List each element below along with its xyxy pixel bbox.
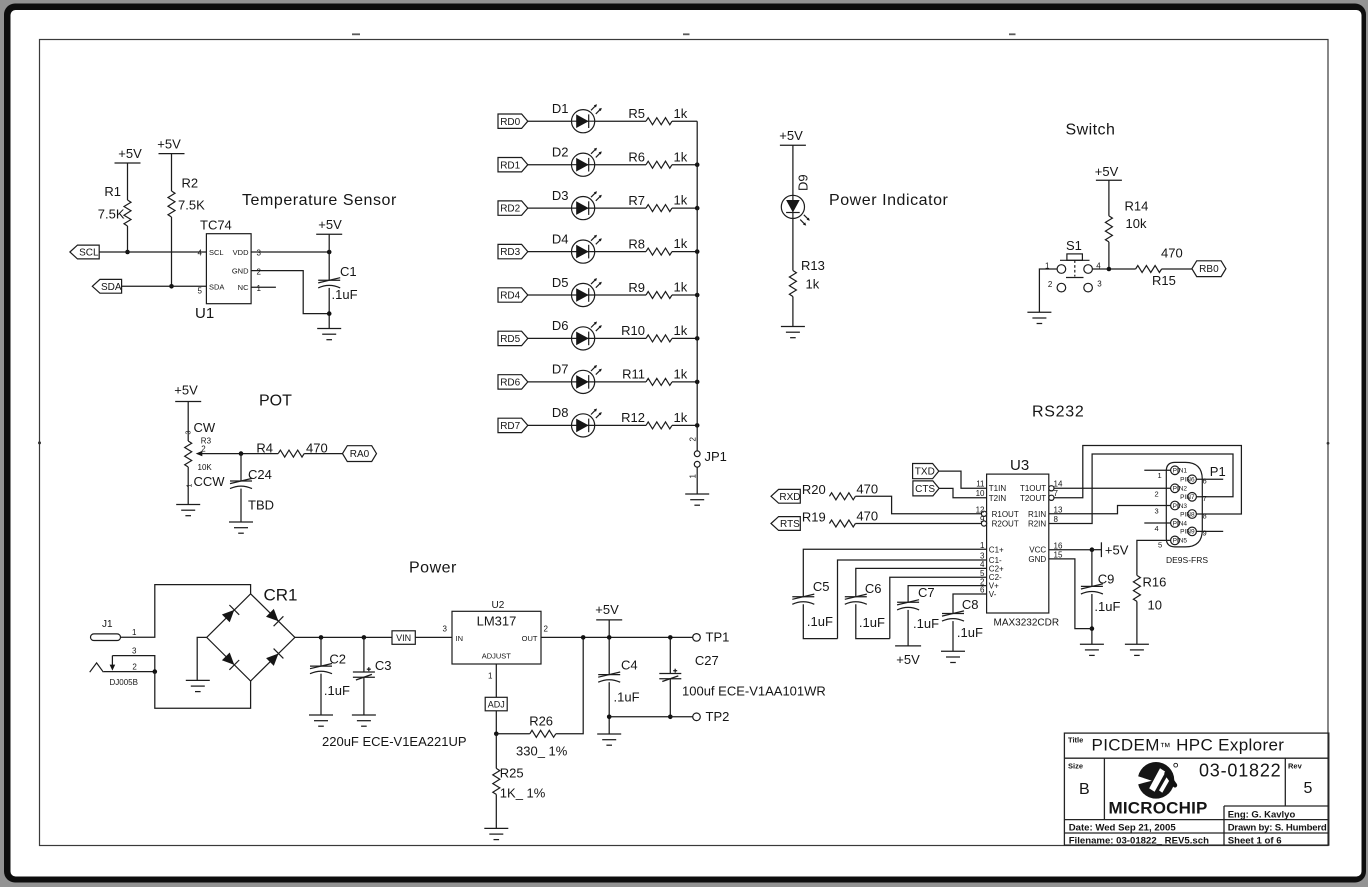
svg-text:470: 470 (856, 482, 878, 497)
svg-text:R2IN: R2IN (1028, 520, 1046, 529)
wire CTS to T2IN (939, 488, 987, 497)
wire RD0 to D1 (528, 120, 572, 122)
svg-text:2: 2 (1155, 490, 1159, 499)
junction bus row 2 (695, 162, 700, 167)
connector pin PIN6 (1180, 475, 1196, 484)
svg-text:R19: R19 (802, 510, 826, 525)
svg-text:SCL: SCL (209, 248, 224, 257)
led D4 (572, 235, 602, 264)
svg-text:8: 8 (1203, 512, 1207, 521)
svg-text:RD4: RD4 (500, 291, 520, 302)
wire R11 to bus (672, 381, 697, 383)
flag RD7 (498, 418, 528, 432)
svg-text:TXD: TXD (915, 467, 935, 478)
power +5V (C4) (596, 619, 622, 621)
svg-text:RTS: RTS (780, 519, 800, 530)
power +5V (R14) (1096, 179, 1122, 181)
resistor R14 (1105, 216, 1112, 242)
connector pin PIN4 (1171, 519, 1188, 528)
svg-text:Drawn by: S. Humberd: Drawn by: S. Humberd (1228, 823, 1327, 834)
wire U1 GND pin 2 (251, 271, 329, 314)
junction C4/OUT (607, 635, 612, 640)
resistor R20 (829, 493, 855, 500)
svg-text:3: 3 (443, 625, 448, 634)
wire V- to C8 (953, 594, 987, 614)
wire SCL (99, 251, 206, 253)
bubble R2OUT (981, 521, 986, 526)
svg-text:9: 9 (1203, 529, 1207, 538)
svg-text:+5V: +5V (118, 146, 142, 161)
junction C1/GND (327, 311, 332, 316)
svg-text:U1: U1 (195, 305, 214, 322)
svg-text:R9: R9 (628, 280, 645, 295)
connector pin PIN9 (1180, 527, 1196, 536)
svg-text:IN: IN (456, 634, 464, 643)
svg-text:ADJUST: ADJUST (482, 652, 512, 661)
led D1 (572, 104, 602, 133)
junction C2 (319, 635, 324, 640)
resistor R10 (646, 335, 672, 342)
wire J1 pin2 (104, 671, 155, 673)
resistor R13 (789, 271, 796, 297)
switch S1 actuator (1060, 254, 1090, 278)
bridge CR1 outline (207, 594, 295, 681)
svg-text:TBD: TBD (248, 498, 274, 513)
svg-text:+5V: +5V (174, 383, 198, 398)
svg-text:3: 3 (132, 646, 137, 655)
junction bus row 3 (695, 206, 700, 211)
wire bridge right to VIN (295, 636, 392, 638)
svg-text:C8: C8 (962, 597, 979, 612)
svg-text:03-01822: 03-01822 (1199, 761, 1281, 781)
svg-text:RXD: RXD (779, 492, 800, 503)
svg-text:470: 470 (856, 509, 878, 524)
svg-text:1: 1 (488, 672, 493, 681)
connector pin PIN2 (1171, 484, 1188, 493)
svg-text:RB0: RB0 (1199, 264, 1219, 275)
capacitor C2 (310, 664, 332, 674)
led D8 (572, 409, 602, 438)
svg-text:C1: C1 (340, 264, 357, 279)
stub PIN9 (1196, 530, 1223, 532)
svg-text:RD7: RD7 (500, 421, 520, 432)
wire J1 to bridge bottom (155, 672, 251, 709)
resistor R5 (646, 118, 672, 125)
svg-text:+5V: +5V (1095, 164, 1119, 179)
wire +5V to C1 node (328, 234, 330, 280)
frame edge dots (38, 441, 1329, 444)
svg-text:T1IN: T1IN (989, 484, 1007, 493)
power +5V (D9) (780, 144, 806, 146)
svg-text:7.5K: 7.5K (98, 207, 125, 222)
junction GND/C9 (1090, 626, 1095, 631)
svg-text:2: 2 (1048, 280, 1053, 289)
svg-text:Date: Wed Sep 21, 2005: Date: Wed Sep 21, 2005 (1069, 822, 1177, 833)
wire C27 top (669, 637, 671, 673)
svg-text:C2: C2 (329, 652, 346, 667)
svg-text:+5V: +5V (896, 652, 920, 667)
resistor R25 (493, 768, 500, 794)
svg-text:4: 4 (1155, 524, 1159, 533)
svg-text:1k: 1k (674, 193, 688, 208)
pin numbers P1 (1155, 471, 1207, 550)
testpoint TP1 (693, 634, 701, 642)
wire PIN5 to R16 (1137, 540, 1171, 575)
svg-text:GND: GND (1028, 555, 1046, 564)
svg-text:JP1: JP1 (705, 449, 727, 464)
svg-text:16: 16 (1054, 541, 1063, 550)
wire C2- to C6 bottom (890, 577, 987, 638)
svg-text:D7: D7 (552, 362, 569, 377)
wire node to R25 (495, 734, 497, 769)
ground (C24) (229, 522, 253, 533)
svg-text:CCW: CCW (194, 474, 226, 489)
junction C27/OUT (668, 635, 673, 640)
wire C7 to +5V (907, 610, 909, 646)
svg-text:U2: U2 (492, 600, 505, 611)
svg-text:ADJ: ADJ (488, 699, 505, 709)
wire U2 OUT rail (541, 636, 693, 638)
capacitor C27 (659, 669, 681, 682)
wire node to R26 (496, 733, 530, 735)
svg-text:Temperature Sensor: Temperature Sensor (242, 192, 397, 209)
wire R10 to bus (672, 337, 697, 339)
junction C27/TP2 rail (668, 715, 673, 720)
ic U3 body (987, 474, 1049, 613)
svg-text:POT: POT (259, 393, 292, 410)
svg-text:B: B (1079, 781, 1090, 798)
svg-text:R1: R1 (104, 184, 121, 199)
svg-text:PIN2: PIN2 (1173, 486, 1188, 493)
junction R1/SCL (125, 250, 130, 255)
resistor R19 (829, 520, 855, 527)
ground (CR1) (186, 680, 210, 691)
flag RD1 (498, 158, 528, 172)
flag RB0 (1192, 261, 1226, 277)
svg-text:NC: NC (238, 283, 249, 292)
junction bus row 4 (695, 249, 700, 254)
wire RD6 to D7 (528, 381, 572, 383)
wire R2IN to PIN7 (1049, 454, 1233, 524)
svg-text:Power Indicator: Power Indicator (829, 192, 949, 209)
led D7 (572, 365, 602, 394)
ground (R25) (484, 828, 508, 839)
svg-text:R1OUT: R1OUT (992, 510, 1019, 519)
svg-text:C5: C5 (813, 579, 830, 594)
wire +5V to R14 (1108, 180, 1110, 216)
wire D4 to R8 (595, 251, 646, 253)
wire C2 top (320, 637, 322, 666)
wire R9 to bus (672, 294, 697, 296)
resistor R9 (646, 292, 672, 299)
connector pin PIN7 (1180, 493, 1196, 502)
svg-text:VIN: VIN (396, 633, 411, 643)
wire C24 top (240, 454, 242, 481)
svg-text:U3: U3 (1010, 457, 1029, 474)
sleeve contact J1 (90, 663, 104, 672)
svg-text:R7: R7 (628, 193, 645, 208)
svg-text:1: 1 (257, 284, 262, 293)
svg-text:RS232: RS232 (1032, 404, 1084, 421)
svg-text:TC74: TC74 (200, 218, 232, 233)
jumper JP1 pin circles (694, 451, 700, 467)
svg-text:VCC: VCC (1029, 546, 1046, 555)
wire R3 to ground (187, 467, 189, 505)
flag CTS (913, 481, 939, 496)
wire V+ to C7 (908, 586, 987, 603)
svg-text:2: 2 (257, 268, 262, 277)
ground (R16) (1125, 644, 1149, 655)
svg-text:D3: D3 (552, 188, 569, 203)
wire C24 bottom (240, 489, 242, 522)
svg-text:RD6: RD6 (500, 378, 520, 389)
svg-text:3: 3 (1097, 279, 1102, 288)
resistor R12 (646, 422, 672, 429)
wire R5 to bus (672, 120, 697, 122)
svg-text:10k: 10k (1126, 216, 1147, 231)
capacitor C8 (942, 611, 964, 621)
svg-text:5: 5 (1304, 780, 1313, 797)
svg-text:11: 11 (976, 480, 985, 489)
power +5V (R2) (159, 153, 185, 155)
wire R6 to bus (672, 164, 697, 166)
switch S1 contacts (1057, 265, 1092, 292)
wire R26 to OUT rail (556, 637, 583, 733)
svg-text:14: 14 (1054, 480, 1063, 489)
svg-text:C27: C27 (695, 653, 719, 668)
led D2 (572, 148, 602, 177)
junction R2/SDA (169, 284, 174, 289)
svg-text:R2OUT: R2OUT (992, 520, 1019, 529)
capacitor C24 (230, 478, 252, 488)
flag TXD (913, 464, 939, 479)
potentiometer R3 (185, 441, 192, 467)
junction J1 pin2/pin3 (153, 669, 158, 674)
capacitor C5 (792, 594, 814, 604)
power +5V inverted (C7) (895, 645, 921, 647)
svg-text:3: 3 (257, 249, 262, 258)
svg-text:Switch: Switch (1066, 122, 1116, 139)
wire RD5 to D6 (528, 337, 572, 339)
svg-text:+5V: +5V (157, 137, 181, 152)
wire U1 VDD pin 3 (251, 251, 329, 253)
svg-text:R5: R5 (628, 106, 645, 121)
frame tick marks (352, 33, 1016, 35)
svg-text:V-: V- (989, 590, 997, 599)
ground (R3) (176, 505, 200, 516)
capacitor C4 (598, 672, 620, 682)
svg-text:T2IN: T2IN (989, 494, 1007, 503)
wire C3 bottom (363, 677, 365, 715)
svg-text:1: 1 (980, 541, 985, 550)
svg-text:1K_ 1%: 1K_ 1% (500, 786, 546, 801)
svg-text:1: 1 (1158, 471, 1162, 480)
connector J1 barrel (91, 634, 121, 641)
wire wiper to R4 (206, 453, 278, 455)
node VIN box (392, 631, 415, 645)
power +5V sideways (VCC) (1092, 549, 1102, 551)
wire R16 to ground (1136, 601, 1138, 644)
svg-text:S1: S1 (1066, 238, 1082, 253)
wire JP1 to ground (696, 467, 698, 494)
svg-text:MICROCHIP: MICROCHIP (1109, 799, 1208, 818)
wire C1+ to C5 (803, 549, 986, 596)
junction VCC node (1090, 547, 1095, 552)
ground (C2) (309, 715, 333, 726)
svg-text:.1uF: .1uF (807, 614, 833, 629)
svg-text:1: 1 (187, 484, 194, 488)
junction bus row 7 (695, 380, 700, 385)
svg-text:10: 10 (976, 489, 985, 498)
svg-text:CW: CW (194, 420, 216, 435)
svg-text:GND: GND (232, 266, 249, 275)
wire R15 to RB0 (1162, 268, 1192, 270)
pin numbers U3 left (976, 480, 985, 595)
wire GND pin 15 (1049, 559, 1092, 629)
connector pin PIN5 (1171, 536, 1188, 545)
flag RD5 (498, 331, 528, 345)
svg-text:LM317: LM317 (477, 614, 517, 629)
connector P1 DE9S outline (1166, 462, 1202, 547)
svg-text:RD0: RD0 (500, 117, 520, 128)
resistor R4 (278, 450, 304, 457)
svg-text:.1uF: .1uF (913, 616, 939, 631)
wire D3 to R7 (595, 207, 646, 209)
wire C8 to ground (952, 621, 954, 651)
wire R25 to ground (495, 794, 497, 828)
wire U2 ADJUST pin (495, 664, 497, 697)
junction ADJ node (494, 732, 499, 737)
svg-text:J1: J1 (102, 619, 113, 630)
flag RD4 (498, 288, 528, 302)
wire C1- to C5 bottom (838, 560, 987, 639)
junction VDD/C1 (327, 250, 332, 255)
diode CR1 top-right (266, 609, 283, 626)
ic U1 TC74 body (206, 234, 251, 304)
svg-text:2: 2 (132, 662, 137, 671)
svg-text:13: 13 (1054, 505, 1063, 514)
svg-text:12: 12 (976, 505, 985, 514)
svg-text:R8: R8 (628, 236, 645, 251)
svg-text:R1IN: R1IN (1028, 510, 1046, 519)
flag SDA (92, 279, 121, 293)
svg-text:1k: 1k (674, 323, 688, 338)
svg-text:.1uF: .1uF (332, 287, 358, 302)
svg-text:1k: 1k (674, 149, 688, 164)
resistor R11 (646, 378, 672, 385)
wire +5V to R2 (171, 154, 173, 191)
svg-text:CR1: CR1 (264, 586, 298, 605)
wire R13 to ground (792, 297, 794, 327)
flag RA0 (343, 446, 377, 462)
wire C5 bottom (803, 604, 837, 638)
svg-text:1k: 1k (806, 277, 820, 292)
capacitor C7 (897, 600, 919, 610)
svg-text:3: 3 (186, 431, 193, 435)
flag SCL (70, 245, 99, 259)
svg-text:MAX3232CDR: MAX3232CDR (994, 618, 1060, 629)
svg-text:RA0: RA0 (350, 449, 370, 460)
svg-text:R25: R25 (500, 766, 524, 781)
junction bus row 6 (695, 336, 700, 341)
svg-text:D5: D5 (552, 275, 569, 290)
wire J1 pin1 to bridge top (121, 585, 251, 638)
led D3 (572, 191, 602, 220)
svg-text:1k: 1k (674, 106, 688, 121)
svg-text:470: 470 (1161, 246, 1183, 261)
switch arm J1 (110, 656, 116, 671)
svg-text:1k: 1k (674, 410, 688, 425)
svg-text:PIN4: PIN4 (1173, 520, 1188, 527)
junction wiper/C24 (239, 451, 244, 456)
wire T1OUT to PIN2 (1054, 487, 1171, 489)
svg-text:Sheet 1 of 6: Sheet 1 of 6 (1228, 836, 1282, 847)
wire D7 to R11 (595, 381, 646, 383)
svg-text:T2OUT: T2OUT (1020, 494, 1046, 503)
wire RD3 to D4 (528, 251, 572, 253)
capacitor C9 (1081, 584, 1103, 594)
connector pin PIN3 (1171, 501, 1188, 510)
svg-text:.1uF: .1uF (1094, 599, 1120, 614)
capacitor C3 (353, 667, 375, 680)
svg-text:R20: R20 (802, 482, 826, 497)
svg-text:D1: D1 (552, 101, 569, 116)
svg-text:SDA: SDA (101, 282, 122, 293)
flag RD0 (498, 114, 528, 128)
svg-text:C7: C7 (918, 585, 935, 600)
svg-text:RD2: RD2 (500, 204, 520, 215)
svg-text:2: 2 (544, 625, 549, 634)
svg-text:8: 8 (1054, 515, 1059, 524)
power +5V (R3) (175, 401, 201, 403)
svg-text:TP2: TP2 (706, 709, 730, 724)
wire RD4 to D5 (528, 294, 572, 296)
svg-text:C3: C3 (375, 658, 392, 673)
led D9 (781, 195, 810, 225)
wire R19 to R2OUT (855, 523, 981, 525)
wire +5V to D9 (792, 145, 794, 195)
svg-text:R26: R26 (529, 714, 553, 729)
svg-text:1k: 1k (674, 236, 688, 251)
wire +5V to R1 (127, 163, 129, 200)
svg-text:RD3: RD3 (500, 247, 520, 258)
ground (C8) (941, 651, 965, 662)
pin names U3 left (989, 484, 1019, 599)
svg-text:1: 1 (689, 474, 698, 479)
svg-text:R2: R2 (182, 176, 199, 191)
svg-text:Rev: Rev (1288, 762, 1303, 771)
svg-text:SDA: SDA (209, 282, 224, 291)
resistor R1 (124, 200, 131, 226)
wire C4 bottom (608, 682, 610, 734)
flag RXD (771, 489, 800, 503)
svg-text:4: 4 (198, 249, 203, 258)
svg-text:3: 3 (1155, 507, 1159, 516)
svg-text:T1OUT: T1OUT (1020, 484, 1046, 493)
wire T2OUT to PIN8 (1054, 446, 1241, 515)
svg-text:4: 4 (980, 560, 985, 569)
flag RTS (771, 517, 800, 531)
svg-text:C24: C24 (248, 467, 272, 482)
resistor R16 (1133, 575, 1140, 601)
svg-text:DJ005B: DJ005B (110, 678, 138, 687)
svg-text:2: 2 (689, 437, 698, 442)
svg-text:100uf ECE-V1AA101WR: 100uf ECE-V1AA101WR (682, 684, 826, 699)
resistor R8 (646, 248, 672, 255)
power +5V (C1) (316, 233, 342, 235)
svg-text:DE9S-FRS: DE9S-FRS (1166, 555, 1208, 565)
stub PIN4 (1144, 522, 1170, 524)
